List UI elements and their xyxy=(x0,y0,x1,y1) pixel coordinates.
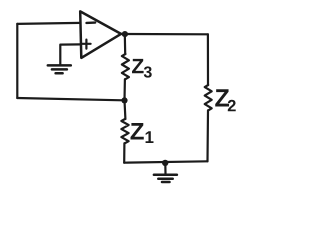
junction node C (bottom rail) xyxy=(162,160,168,166)
wire: Z3 to node A xyxy=(123,79,126,100)
wire: bottom horizontal rail xyxy=(124,161,207,162)
wire: feedback from inverting input to left rail xyxy=(17,23,80,24)
wire: node A to Z1 xyxy=(123,100,126,119)
wire: right rail upper segment xyxy=(207,34,209,85)
impedance Z3 xyxy=(122,54,129,79)
wire: bottom-left horizontal to node A xyxy=(17,98,123,100)
junction node A (Z3/Z1) xyxy=(121,97,127,103)
op-amp U1 xyxy=(80,11,121,58)
impedance Z1 xyxy=(121,119,128,143)
op-amp minus input label xyxy=(87,21,96,24)
impedance Z2 xyxy=(205,85,212,110)
wire: top horizontal from node B to right rail xyxy=(125,33,208,35)
wire: op-amp output to node B xyxy=(121,33,125,35)
wire: Z1 to bottom rail xyxy=(123,143,125,163)
wire: right rail lower segment xyxy=(206,110,209,161)
op-amp plus input label xyxy=(82,40,91,49)
junction node B (op-amp output) xyxy=(122,31,128,37)
wire: bottom ground stem xyxy=(164,163,166,174)
label Z3 xyxy=(132,59,144,73)
wire: non-inverting input to ground stem xyxy=(60,44,81,65)
ground (bottom rail) xyxy=(154,175,177,182)
ground (non-inverting input) xyxy=(48,65,71,73)
label Z1 xyxy=(131,123,144,140)
wire: left vertical rail xyxy=(16,24,18,98)
label Z2 xyxy=(215,89,229,106)
wire: node B to Z3 xyxy=(124,34,127,54)
